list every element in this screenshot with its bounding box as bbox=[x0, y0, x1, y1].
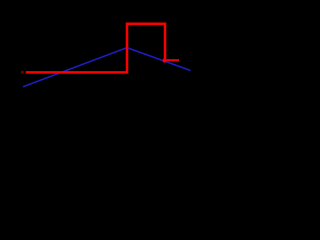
red step function: low left segment, rise, top, drop bbox=[26, 24, 165, 73]
red low right segment bbox=[166, 59, 179, 61]
red marker dot at step-down bbox=[163, 58, 167, 62]
blue piecewise-linear curve bbox=[23, 48, 191, 87]
dark red dot at left start bbox=[21, 71, 24, 74]
